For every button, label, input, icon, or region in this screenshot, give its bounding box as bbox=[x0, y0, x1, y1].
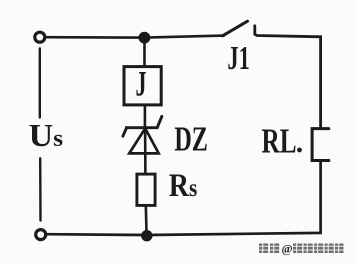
svg-text:J1: J1 bbox=[227, 40, 250, 77]
svg-text:@: @ bbox=[282, 242, 293, 256]
svg-text:RL: RL bbox=[262, 121, 297, 160]
svg-text:J: J bbox=[136, 64, 147, 104]
svg-text:DZ: DZ bbox=[174, 120, 208, 159]
